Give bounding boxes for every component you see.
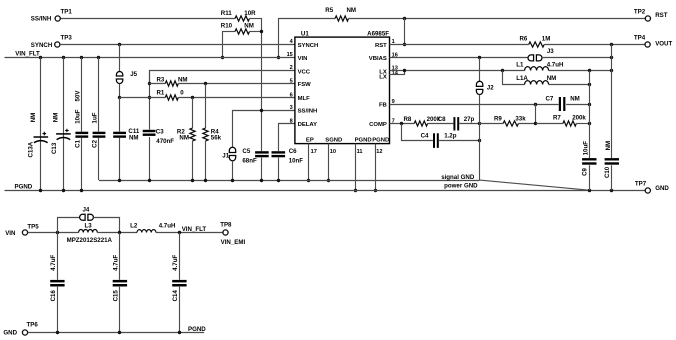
junction signal gnd at J5/C11 [118,179,121,182]
svg-text:J5: J5 [130,71,137,78]
svg-text:C13: C13 [51,142,58,154]
wire: VBIAS pin 16 to J3 [390,57,529,59]
junction VOUT riser on RST/R6 line [610,43,613,46]
svg-text:MLF: MLF [298,96,311,102]
svg-text:PGND: PGND [355,137,372,143]
svg-text:200k: 200k [572,114,586,121]
wire: vertical down to RST pin line [404,18,406,44]
svg-text:C16: C16 [50,290,57,302]
resistor R8 200k [414,121,427,126]
svg-text:27p: 27p [464,116,475,123]
capacitor C1 10uF 50V [81,57,83,131]
svg-text:PGND: PGND [15,183,33,190]
wire: COMP pin 7 [390,123,415,125]
svg-text:10uF: 10uF [74,109,81,124]
junction on VIN rail at R10 [221,56,224,59]
wire: FB node vertical to divider [535,104,537,124]
svg-text:SYNCH: SYNCH [31,42,53,49]
svg-text:TP8: TP8 [220,221,232,228]
svg-text:TP5: TP5 [27,223,39,230]
resistor R7 200k [536,123,563,125]
svg-text:SS/INH: SS/INH [31,16,52,23]
svg-text:VOUT: VOUT [655,40,672,47]
svg-text:8: 8 [290,119,293,125]
svg-text:10: 10 [330,149,336,155]
junction C3 vertical at FSW line [148,82,151,85]
svg-text:VCC: VCC [298,70,311,76]
svg-text:L2: L2 [130,222,138,229]
ferrite bead L3 MPZ2012S221A [79,230,98,233]
resistor R2 NM vertical [192,98,194,129]
wire: RST pin 1 to R6 [390,44,529,46]
junction L1 out at C9 vertical [588,69,591,72]
svg-text:MPZ2012S221A: MPZ2012S221A [67,237,113,244]
junction R2 top on MLF line [191,96,194,99]
svg-text:NM: NM [547,75,557,82]
junction L1A branch on LX line [501,69,504,72]
svg-text:TP1: TP1 [61,9,73,16]
wire: PGND pin 11 to power ground [355,144,357,191]
junction gnd C15 [118,331,121,334]
svg-text:J3: J3 [547,48,554,55]
svg-text:R1: R1 [157,90,165,97]
test point TP6 [22,330,27,335]
svg-text:11: 11 [357,149,363,155]
svg-text:R3: R3 [157,76,165,83]
wire: SGND pin 10 to signal ground [328,144,330,181]
junction pgnd C1 [80,189,83,192]
svg-text:R9: R9 [494,115,502,122]
svg-text:NM: NM [178,76,188,83]
resistor R9 33k [480,123,504,125]
svg-text:LX: LX [379,75,387,81]
junction signal gnd at R4 [204,179,207,182]
junction compensation node at J2 vertical [478,122,481,125]
resistor R4 56k vertical [205,84,207,128]
junction C1 top [80,56,83,59]
svg-text:C1: C1 [74,139,81,147]
svg-text:0: 0 [180,90,184,97]
svg-text:R11: R11 [221,10,233,17]
capacitor C6 10nF on DELAY [279,124,295,152]
wire: R5 net segment from VIN riser [279,18,336,20]
svg-text:10nF: 10nF [289,157,304,164]
svg-text:EP: EP [306,137,314,143]
svg-text:VIN: VIN [298,56,308,62]
jumper J1 [229,147,237,161]
capacitor C16 4.7uF [57,233,59,280]
wire: signal GND rail [99,180,480,182]
svg-text:PGND: PGND [372,137,389,143]
svg-text:PGND: PGND [188,326,206,333]
capacitor C8 27p [453,117,455,130]
inductor L1A NM parallel [503,71,525,85]
svg-text:U1: U1 [301,30,309,37]
resistor R3 NM [165,81,178,86]
wire: C8 to J2 vertical [459,123,479,125]
junction R4 top on FSW line [204,82,207,85]
resistor R1 0 [165,95,178,100]
svg-text:VIN: VIN [5,230,16,237]
svg-text:470nF: 470nF [156,138,174,145]
svg-text:TP7: TP7 [635,180,647,187]
svg-text:1.2p: 1.2p [444,132,457,139]
wire: bottom ground rail [28,332,205,334]
wire: L1 to VOUT verticals [549,70,612,72]
svg-text:C7: C7 [546,95,554,102]
capacitor C10 NM output [611,44,613,158]
svg-text:17: 17 [311,149,317,155]
svg-text:NM: NM [347,7,357,14]
wire: power GND rail PGND [5,190,646,192]
svg-text:J4: J4 [83,206,90,213]
svg-text:FSW: FSW [298,82,312,88]
wire: L3 to L2 [97,232,137,234]
svg-text:NM: NM [129,134,139,141]
svg-text:SS/INH: SS/INH [298,109,318,115]
svg-text:signal GND: signal GND [441,174,475,181]
svg-text:FB: FB [379,102,387,108]
junction gnd C14 [178,331,181,334]
jumper J2 on VBIAS-to-ground vertical [479,58,481,81]
svg-text:6: 6 [290,92,293,98]
svg-text:C13A: C13A [28,141,35,157]
svg-text:NM: NM [244,23,254,30]
wire: R10 right to vertical [250,31,262,33]
svg-text:12: 12 [376,149,382,155]
test point TP1 [55,16,60,21]
svg-text:NM: NM [30,113,37,123]
svg-text:TP4: TP4 [634,35,646,42]
svg-text:NM: NM [570,95,580,102]
svg-text:L3: L3 [85,222,93,229]
wire: VIN to L3 [28,232,79,234]
svg-text:GND: GND [655,185,669,192]
junction VBIAS at J2 riser [478,56,481,59]
wire: L2 to TP8 [156,232,223,234]
svg-text:SYNCH: SYNCH [298,43,319,49]
svg-text:VIN_EMI: VIN_EMI [221,239,246,246]
resistor R5 [335,16,348,21]
junction C13 top [62,56,65,59]
test point TP8 [223,230,228,235]
svg-text:4.7uF: 4.7uF [172,255,179,271]
svg-text:33k: 33k [515,115,526,122]
svg-text:NM: NM [179,135,189,142]
svg-text:J1: J1 [222,152,229,159]
wire: R11 to corner [250,18,262,20]
wire: PGND pin 12 to power ground [375,144,377,191]
svg-text:C6: C6 [289,148,297,155]
svg-text:10R: 10R [244,10,256,17]
svg-text:COMP: COMP [369,122,387,128]
wire: vertical R10 left to VIN rail [222,32,224,58]
svg-text:R5: R5 [325,7,333,14]
svg-text:4.7uH: 4.7uH [159,222,176,229]
svg-text:5: 5 [290,79,293,85]
junction FB/R9R7 riser [534,103,537,106]
inductor L1 4.7uH [525,67,549,71]
wire: vertical R5 left to VIN rail [278,18,280,57]
svg-text:4.7uF: 4.7uF [50,255,57,271]
junction signal gnd at C3 [148,179,151,182]
junction L1A at C9 vertical [588,83,591,86]
capacitor C15 4.7uF [119,233,121,280]
wire: FB pin 9 to C7 [390,104,559,106]
wire: LX pins to L1 [390,70,525,72]
junction C2 top [97,56,100,59]
junction signal gnd at J1 [231,179,234,182]
junction J5/C11 on MLF line [118,96,121,99]
test point TP3 [55,42,60,47]
junction C15 top [118,231,121,234]
svg-text:R6: R6 [520,36,528,43]
capacitor C13A (NM electrolytic) [40,57,42,190]
svg-text:C9: C9 [582,167,589,175]
op-amp-IC U1 A6985F body [295,37,390,144]
wire: R8 to C8 [428,123,454,125]
junction C16/J4 left riser [56,231,59,234]
svg-text:4.7uH: 4.7uH [547,62,564,69]
svg-text:4.7uF: 4.7uF [112,255,119,271]
junction C13A top [39,56,42,59]
svg-text:56k: 56k [211,135,222,142]
wire: R10 branch left corner [222,31,235,33]
svg-text:C2: C2 [91,139,98,147]
svg-text:50V: 50V [74,90,81,102]
jumper J4 bypass loop [58,218,80,233]
svg-text:C8: C8 [438,116,446,123]
capacitor C7 NM [559,97,561,111]
svg-text:14: 14 [392,70,399,76]
svg-text:VBIAS: VBIAS [369,56,387,62]
junction pgnd C13A [39,189,42,192]
svg-text:3: 3 [290,105,293,111]
junction signal gnd at R2 [191,179,194,182]
capacitor C11 NM [119,98,121,132]
capacitor C14 4.7uF [179,233,181,280]
junction COMP at C4 branch [400,122,403,125]
capacitor C3 470nF on VCC [149,70,151,129]
junction pgnd C13 [62,189,65,192]
junction SYNCH to J5 riser [118,43,121,46]
svg-text:C5: C5 [242,148,250,155]
svg-text:L1A: L1A [516,75,528,82]
svg-text:RST: RST [655,12,668,19]
test point TP2 [645,16,650,21]
wire: J2 vertical down to signal ground end [479,95,481,181]
junction C14 top [178,231,181,234]
svg-text:SGND: SGND [325,137,342,143]
junction R7 at VOUT sense vertical [588,122,591,125]
junction C7 right [588,103,591,106]
junction signal gnd at C6 [277,179,280,182]
capacitor C4 1.2p branch [402,124,433,141]
junction pgnd C10 [610,189,613,192]
junction C3 vertical at MLF line [148,96,151,99]
svg-text:NM: NM [605,141,612,151]
capacitor C2 1uF [98,57,100,131]
svg-text:A6985F: A6985F [367,30,389,37]
wire: J3 to VOUT vertical [542,57,612,59]
test point TP4 [645,42,650,47]
wire: VIN_FLT rail to IC pin 15 [5,57,295,59]
svg-text:DELAY: DELAY [298,122,317,128]
svg-text:15: 15 [287,52,293,58]
svg-text:J2: J2 [487,85,494,92]
wire: J5 down to R1/MLF line [119,84,121,98]
junction on VIN rail at R5 riser [277,56,280,59]
wire: R9 to divider node [518,123,536,125]
svg-text:TP2: TP2 [634,9,646,16]
wire: TP1/SS-INH line to R11 [60,18,235,20]
svg-text:C4: C4 [421,132,429,139]
svg-text:NM: NM [53,113,60,123]
wire: SYNCH line TP3 to IC pin 4 [60,44,295,46]
capacitor C9 10uF output [589,71,591,158]
svg-text:C3: C3 [156,128,164,135]
junction J3 at VOUT vertical [610,56,613,59]
svg-text:RST: RST [375,43,387,49]
wire: MLF line to IC pin 6 [120,97,166,99]
junction LX pins join [403,69,406,72]
svg-text:68nF: 68nF [242,157,257,164]
svg-text:R10: R10 [221,23,233,30]
jumper J5 (SYNCH to MLF) [119,44,121,71]
resistor R11 [235,16,250,21]
svg-text:R8: R8 [404,116,412,123]
capacitor C5 68nF [255,151,269,153]
wire: vertical from R11/R10 down to SS/INH pin line and C5 [261,18,263,151]
svg-text:GND: GND [3,330,17,337]
wire: C7 to VOUT sense vertical [566,104,589,106]
junction C4 right at J2 vertical [478,139,481,142]
wire: R5 to TP2/RST corner junction [349,18,405,20]
wire: top line to TP2 [404,18,645,20]
test point TP7 [645,188,650,193]
junction on RST line [403,43,406,46]
svg-text:1uF: 1uF [91,112,98,123]
svg-text:VIN_FLT: VIN_FLT [182,226,207,233]
svg-text:2: 2 [290,65,293,71]
inductor L2 4.7uH [137,230,156,233]
svg-text:power GND: power GND [444,182,478,189]
wire: signal-to-power gnd diagonal [480,180,590,190]
svg-text:VIN_FLT: VIN_FLT [15,51,40,58]
svg-text:9: 9 [392,99,395,105]
wire: FSW line to IC pin 5 [149,83,165,85]
svg-text:1M: 1M [542,36,551,43]
junction R10-R11 join [260,30,263,33]
junction L1 out at VOUT vertical [610,69,613,72]
svg-text:TP3: TP3 [61,35,73,42]
svg-text:C10: C10 [604,166,611,178]
wire: J1 to signal ground [232,161,234,180]
wire: SS/INH pin line corner to IC pin 3 [233,111,295,148]
svg-text:R7: R7 [553,114,561,121]
jumper J3 [528,54,543,61]
wire: R6 to VOUT node and TP4 [544,44,645,46]
resistor R6 1M [529,42,545,47]
wire: LX pin 14 stub [390,74,405,76]
junction signal gnd at C5 [260,179,263,182]
svg-text:C15: C15 [112,290,119,302]
junction pgnd C9 / star point [588,189,591,192]
junction divider mid node [534,122,537,125]
wire: VCC corner rail to IC pin 2 [150,71,295,84]
svg-text:TP6: TP6 [27,321,39,328]
test point TP5 [22,230,27,235]
resistor R10 [235,29,250,34]
junction at R5/TP2/RST riser [403,17,406,20]
svg-text:C14: C14 [172,290,179,302]
capacitor C13 (NM electrolytic) [63,57,65,190]
wire: EP pin 17 to signal ground [308,144,310,181]
junction gnd C16 [56,331,59,334]
svg-text:10uF: 10uF [582,141,589,156]
junction C5/R11 vertical on SS/INH line [260,109,263,112]
svg-text:L1: L1 [516,62,524,69]
